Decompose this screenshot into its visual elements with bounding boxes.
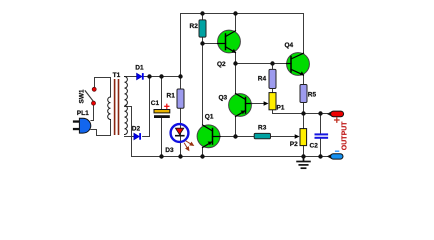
capacitor C1 [154,110,170,119]
svg-text:D2: D2 [132,126,141,133]
trimmer P2 [295,129,307,146]
ground [297,157,310,169]
D3 light arrows [184,141,193,150]
svg-text:OUTPUT: OUTPUT [341,121,348,151]
wire switch to plug top [91,105,94,120]
wire Q4 emitter to R5 [303,75,305,85]
svg-text:R1: R1 [167,93,176,100]
svg-text:Q1: Q1 [205,113,214,120]
C1 plus mark [165,104,169,108]
output terminal negative [327,154,343,159]
svg-text:SW1: SW1 [79,89,86,103]
svg-text:Q3: Q3 [219,95,228,102]
wire R1 to D3 to ground rail [180,108,182,156]
wire top rail [181,14,304,77]
wire R5 bottom [303,103,305,114]
wire node to R1 [180,77,182,90]
output terminal positive [327,111,344,117]
svg-text:Q4: Q4 [285,42,294,49]
svg-text:P1: P1 [277,105,285,112]
wire P2 bottom [303,146,305,157]
resistor R3 [254,133,270,138]
wire bottom rail [132,156,328,158]
wire Q3 collector [235,64,237,94]
output minus sign [336,150,339,152]
svg-text:PL1: PL1 [77,110,89,117]
LED D3 [171,124,189,142]
wire R2 node to Q1 collector [202,44,204,126]
resistor R1 [177,89,184,108]
transistor Q4 [287,53,310,76]
plug PL1 [73,118,91,133]
transistor Q1 [197,125,220,148]
svg-text:R3: R3 [258,124,267,131]
wire Q2 base [203,43,226,45]
resistor R5 [300,85,307,103]
wire R3 to P2 wiper [271,136,295,138]
trimmer P1 [252,93,276,110]
wire C1 bottom branch [161,118,163,157]
svg-text:R5: R5 [308,92,317,99]
svg-text:C2: C2 [310,143,319,150]
wire R2 top stub [202,14,204,20]
wire C2 bottom branch [320,139,322,157]
svg-text:C1: C1 [151,100,160,107]
wire plug bottom to primary bottom [91,120,111,136]
capacitor C2 [315,133,329,138]
svg-text:Q2: Q2 [217,61,226,68]
resistor R2 [199,20,206,37]
wire Q4 collector [303,14,305,54]
switch SW1 [85,87,96,105]
output plus sign [335,118,339,122]
wire secondary top to D1 [125,76,137,78]
wire C2 top branch [320,114,322,134]
transformer T1 core [114,79,119,135]
wire Q2 emitter node [235,53,237,64]
wire Q1 emitter to ground rail [202,148,204,157]
svg-text:D3: D3 [165,147,174,154]
transformer T1 secondary winding [125,77,128,135]
wire C1 top branch [161,77,163,110]
svg-text:R4: R4 [258,76,267,83]
svg-text:D1: D1 [135,65,144,72]
wire Q1 base / R3 node [213,136,254,138]
wire switch to primary top [95,78,111,98]
svg-text:T1: T1 [113,72,121,79]
junction dots [147,11,322,158]
wire R4 top stub [272,64,274,70]
wire rail to Q4 base [236,63,292,65]
wire P1 bottom to output rail [273,110,328,114]
wire D2 anode [125,136,134,138]
wire Q2 collector [235,14,237,32]
wire R4 to P1 [272,89,274,93]
wire D2 riser [143,77,150,137]
wire rail to P2 top [303,114,305,129]
diode D1 [137,73,144,80]
transformer T1 primary winding [108,97,111,119]
resistor R4 [269,69,276,88]
wire R2 bottom stub [202,37,204,44]
transistor Q3 [229,94,252,117]
wire D1 cathode to node [144,76,181,78]
transistor Q2 [218,30,241,53]
diode D2 [134,133,141,140]
svg-text:P2: P2 [290,141,298,148]
wire center tap [125,107,132,157]
wire Q3 emitter to node [235,117,237,137]
svg-text:R2: R2 [190,23,199,30]
